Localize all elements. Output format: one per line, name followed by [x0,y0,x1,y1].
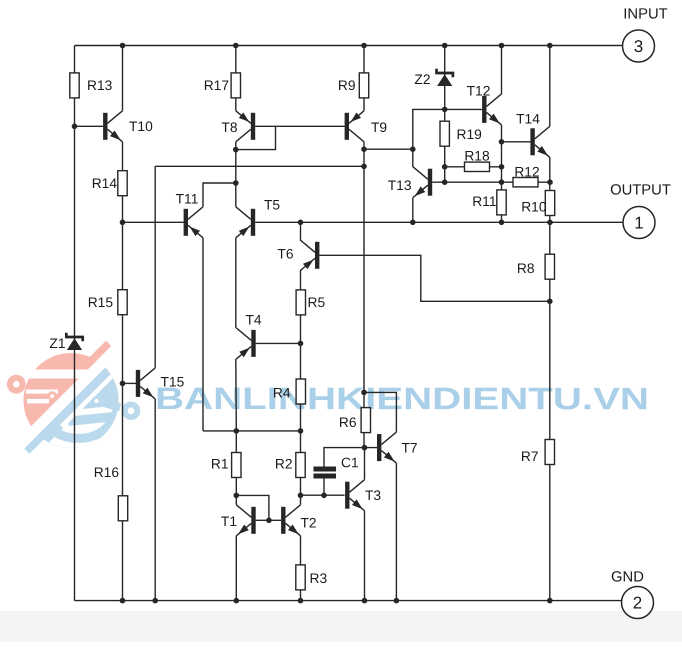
wire T15 emitter [154,399,156,601]
zener Z2 [414,69,453,87]
node R16 ground [120,598,126,604]
wire output rail [255,221,623,223]
wire input rail [75,45,623,47]
resistor R8 [517,254,555,279]
transistor T6 [277,240,319,271]
svg-text:T2: T2 [300,516,316,531]
node R18 T13 base [442,179,448,185]
wire T11 collector jog [203,183,236,207]
wire Z2 R19 column [444,46,446,183]
svg-text:R16: R16 [94,465,120,480]
wire T3 base row [301,494,345,496]
wire T1 T2 base tie [236,495,269,520]
wire R5 R4 R2 column [300,271,302,505]
transistor T14 [516,111,550,157]
node T13 emitter output [410,220,416,226]
node T7 collector join [361,390,367,396]
wire T8 emitter node [235,142,237,207]
svg-text:GND: GND [611,569,644,585]
node input rail T12 [499,43,505,49]
wire T15 base [123,382,137,384]
svg-text:R2: R2 [275,456,293,471]
svg-text:T1: T1 [221,514,237,529]
transistor T1 [221,505,256,536]
node R7 ground [547,598,553,604]
wire T5 emitter to T4 [235,238,237,328]
node R14/T11 base [120,220,126,226]
node T10 base [72,124,78,130]
node T15 emitter ground [152,598,158,604]
resistor R11 [472,190,506,215]
node T15 base [120,381,126,387]
resistor R14 [92,171,128,196]
transistor T3 [345,480,381,511]
svg-text:R7: R7 [521,449,539,464]
svg-text:1: 1 [634,213,643,232]
svg-text:R9: R9 [338,78,356,93]
svg-text:R14: R14 [92,176,118,191]
node T9 emitter [361,146,367,152]
svg-text:T10: T10 [129,119,153,134]
wire T3 collector [364,448,366,480]
wire R9 column [363,46,365,111]
resistor R19 [440,121,482,146]
svg-text:3: 3 [634,37,643,56]
svg-text:T3: T3 [365,488,381,503]
terminal 1 OUTPUT [610,182,671,238]
node R11 top [499,179,505,185]
wire T4 base [256,342,301,344]
wire T11 base to R14 node [123,221,184,223]
node T8 emitter [233,147,239,153]
transistor T5 [236,198,281,238]
transistor T11 [176,191,203,237]
node input rail R9 [361,43,367,49]
wire left rail [74,46,76,601]
svg-text:R3: R3 [309,571,327,586]
wire T12 emitter R11 column [501,125,503,222]
resistor R13 [70,73,113,98]
svg-text:R12: R12 [514,164,539,179]
node T3 emitter ground [362,598,368,604]
node R2 T2 collector [298,493,304,499]
resistor R5 [296,290,325,315]
svg-text:R8: R8 [517,261,535,276]
svg-text:T7: T7 [401,441,417,456]
wire T11 emitter [202,238,204,431]
watermark text banlinhkiendientu.vn [155,381,649,416]
node R12 T14 emitter R10 [547,179,553,185]
terminal 3 INPUT [623,6,668,62]
wire R14 R15 R16 column [122,142,124,601]
transistor T15 [136,368,185,399]
svg-text:C1: C1 [341,455,359,470]
watermark logo [3,333,184,514]
wire R18 row [445,166,502,168]
wire ground rail [75,600,623,602]
wire bottom row left [203,430,301,432]
node C1 bottom [321,493,327,499]
resistor R15 [88,290,128,315]
wire T1 emitter [235,536,237,601]
svg-text:R1: R1 [211,456,229,471]
wire T8 T9 base [255,125,344,127]
svg-text:R5: R5 [307,295,325,310]
node R18 right [499,164,505,170]
svg-text:R18: R18 [464,148,490,163]
resistor R2 [275,453,305,478]
node input rail R13/T10 [120,43,126,49]
terminal 2 GND [611,569,653,618]
svg-text:T6: T6 [277,246,293,261]
transistor T2 [281,505,317,536]
wire T2 emitter R3 [300,536,302,601]
wire bias row [155,165,364,167]
node input rail R17 [233,43,239,49]
node R8 feedback [547,299,553,305]
node R3 ground [298,598,304,604]
svg-text:BANLINHKIENDIENTU.VN: BANLINHKIENDIENTU.VN [155,381,649,416]
node R4 bottom [298,428,304,434]
svg-text:R4: R4 [273,385,291,400]
node R11 output [499,220,505,226]
svg-text:R13: R13 [87,78,113,93]
wire T9 to T13 row [364,148,413,150]
resistor R9 [338,73,369,98]
wire T15 collector [154,166,156,368]
svg-text:T13: T13 [388,178,412,193]
zener Z1 [49,333,82,351]
wire T3 emitter [364,511,366,601]
wire R13 column [122,46,124,111]
svg-text:T11: T11 [176,191,199,206]
wire T1 T2 base [256,519,281,521]
wire T14 collector [549,46,551,127]
wire T10 base [75,125,104,127]
node T7 emitter ground [394,598,400,604]
node T7 base R6 C1 [362,445,368,451]
capacitor C1 [314,455,359,476]
transistor T12 [467,83,502,124]
resistor R16 [94,465,128,521]
svg-text:OUTPUT: OUTPUT [610,182,671,198]
node R10 output [547,220,553,226]
wire T13 collector column [413,109,482,166]
node bias row join [361,164,367,170]
resistor R12 [513,164,540,186]
svg-text:T4: T4 [245,313,261,328]
node R1 T1 collector [234,493,240,499]
node T1 emitter ground [234,598,240,604]
svg-text:2: 2 [633,593,642,612]
svg-text:Z1: Z1 [49,336,65,351]
wire R1 column [235,431,237,505]
svg-text:T5: T5 [264,198,280,213]
wire R17 column [235,46,237,111]
wire T13 base row [432,181,550,183]
transistor T10 [103,111,153,142]
svg-text:INPUT: INPUT [623,6,667,22]
node T6 collector output [298,220,304,226]
wire T14 emitter R10 R8 R7 column [549,157,551,600]
resistor R10 [521,191,555,216]
wire T6 base feedback [319,255,549,301]
transistor T9 [345,111,388,142]
transistor T4 [236,313,262,359]
node T4 base [298,341,304,347]
node T1 T2 bases [266,518,272,524]
node T11 collector [233,180,239,186]
svg-text:R10: R10 [521,199,547,214]
transistor T8 [221,111,255,142]
node T4 emitter row [234,428,240,434]
node input rail T14 [547,43,553,49]
wire T12 collector [501,46,503,95]
svg-text:T15: T15 [160,375,184,390]
resistor R17 [204,73,241,98]
svg-text:R15: R15 [88,295,114,310]
svg-text:R11: R11 [472,194,496,209]
resistor R6 [339,408,371,433]
svg-text:R17: R17 [204,78,229,93]
wire T6 collector [300,222,302,240]
svg-text:R19: R19 [456,127,482,142]
resistor R7 [521,440,555,465]
svg-text:T9: T9 [371,120,387,135]
node R19 R18 [442,164,448,170]
wire C1 bottom lead [323,479,325,496]
wire T4 emitter down [235,359,238,431]
svg-text:Z2: Z2 [414,72,430,87]
wire T9 emitter column [363,142,365,448]
resistor R1 [211,453,241,478]
wire C1 top lead [324,448,377,467]
resistor R3 [296,565,328,590]
node Z2 T12 base [442,107,448,113]
node input rail Z2 [442,43,448,49]
wire T7 emitter [395,463,397,600]
transistor T13 [388,167,432,198]
resistor R18 [464,148,490,171]
svg-text:T8: T8 [221,120,237,135]
wire T7 collector [364,392,396,432]
svg-text:T12: T12 [467,83,491,98]
resistor R4 [273,379,306,404]
wire T14 base [502,141,531,143]
transistor T7 [377,432,418,463]
svg-text:R6: R6 [339,415,357,430]
node T14 base T12 emitter [499,139,505,145]
wire T13 emitter [412,198,414,222]
node T13 collector [410,146,416,152]
wire T8 diode jog [236,126,276,149]
svg-text:T14: T14 [516,111,540,126]
